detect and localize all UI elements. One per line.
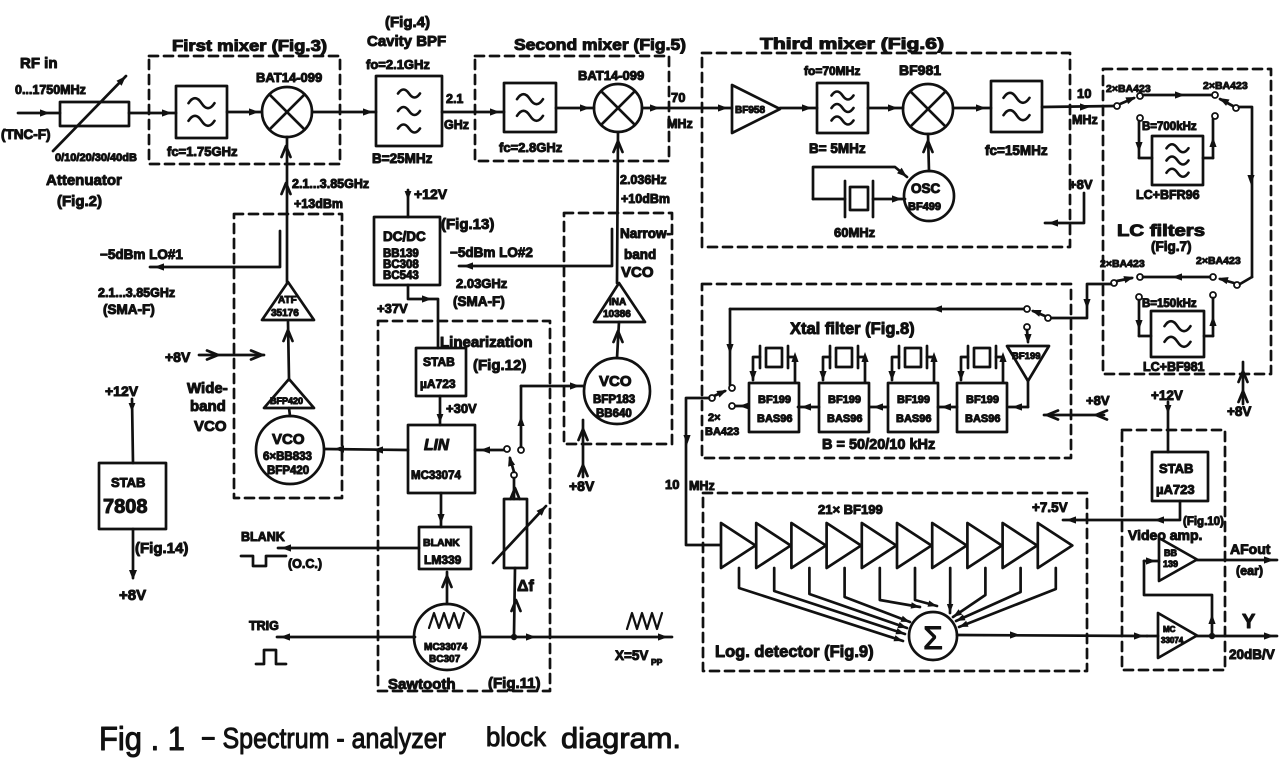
svg-text:Log. detector (Fig.9): Log. detector (Fig.9) [715,643,874,661]
svg-text:VCO: VCO [272,431,305,448]
svg-text:+12V: +12V [1151,388,1183,403]
svg-text:B=150kHz: B=150kHz [1142,298,1197,310]
svg-text:BFP420: BFP420 [270,396,303,406]
svg-text:DC/DC: DC/DC [383,229,426,244]
svg-text:BAT14-099: BAT14-099 [578,68,644,83]
svg-text:ATF: ATF [278,295,297,306]
svg-text:Xtal filter (Fig.8): Xtal filter (Fig.8) [790,320,915,338]
svg-text:STAB: STAB [111,475,145,490]
svg-text:OSC: OSC [911,181,941,196]
svg-text:2×BA423: 2×BA423 [1106,83,1151,95]
svg-text:(ear): (ear) [1236,564,1263,578]
svg-text:0/10/20/30/40dB: 0/10/20/30/40dB [55,152,137,164]
svg-text:BAS96: BAS96 [896,413,931,425]
svg-text:2×BA423: 2×BA423 [1203,80,1248,92]
svg-text:+8V: +8V [1069,177,1093,192]
svg-text:Δf: Δf [517,578,535,595]
svg-text:diagram.: diagram. [561,723,681,755]
svg-text:Y: Y [1242,611,1256,633]
svg-text:LC+BFR96: LC+BFR96 [1136,188,1200,202]
svg-text:+13dBm: +13dBm [294,197,343,211]
svg-text:−5dBm LO#1: −5dBm LO#1 [100,247,183,262]
svg-text:(Fig.14): (Fig.14) [135,540,188,557]
svg-text:2×BA423: 2×BA423 [1100,258,1145,270]
svg-text:+8V: +8V [1086,393,1110,408]
svg-text:35176: 35176 [271,308,299,319]
svg-text:(Fig.12): (Fig.12) [473,357,526,374]
svg-text:139: 139 [1163,559,1178,569]
svg-text:60MHz: 60MHz [834,225,876,240]
svg-text:(Fig.2): (Fig.2) [57,193,102,210]
svg-text:BAS96: BAS96 [965,413,1000,425]
svg-text:(TNC-F): (TNC-F) [1,127,50,142]
svg-text:band: band [624,247,656,262]
svg-text:fo=70MHz: fo=70MHz [804,64,860,78]
svg-text:BAS96: BAS96 [827,413,862,425]
svg-text:BC543: BC543 [383,270,419,282]
svg-text:MHz: MHz [689,479,715,493]
svg-text:BF958: BF958 [735,105,765,116]
svg-text:+30V: +30V [446,401,477,416]
svg-text:Cavity BPF: Cavity BPF [367,33,446,50]
svg-text:2.1...3.85GHz: 2.1...3.85GHz [292,177,369,191]
svg-text:BF981: BF981 [899,62,941,78]
svg-text:BF199: BF199 [828,394,861,406]
svg-text:BAT14-099: BAT14-099 [256,70,322,85]
svg-text:BB: BB [1164,548,1177,558]
svg-text:BFP183: BFP183 [593,394,635,406]
svg-text:MC33074: MC33074 [424,642,468,653]
svg-text:2×: 2× [708,412,721,424]
svg-text:0...1750MHz: 0...1750MHz [15,83,86,97]
svg-text:10: 10 [1077,86,1091,101]
svg-text:+8V: +8V [165,349,191,365]
svg-text:+37V: +37V [377,301,408,316]
svg-text:RF in: RF in [20,55,58,72]
svg-text:2.1...3.85GHz: 2.1...3.85GHz [98,286,175,300]
svg-text:+7.5V: +7.5V [1032,500,1068,515]
svg-text:BB640: BB640 [596,408,632,420]
svg-text:BF499: BF499 [908,201,941,213]
svg-text:µA723: µA723 [420,377,456,391]
svg-text:B = 50/20/10 kHz: B = 50/20/10 kHz [822,437,935,453]
svg-text:2.1: 2.1 [446,92,463,106]
svg-text:70: 70 [671,90,685,105]
svg-text:MHz: MHz [667,117,693,131]
svg-text:VCO: VCO [599,373,632,390]
svg-text:LC filters: LC filters [1117,222,1205,240]
svg-text:PP: PP [651,657,663,667]
svg-text:VCO: VCO [194,418,227,435]
svg-text:block: block [486,722,546,752]
svg-text:X=5V: X=5V [615,648,648,663]
svg-text:Attenuator: Attenuator [46,172,122,189]
svg-text:BLANK: BLANK [241,530,285,544]
svg-text:band: band [190,398,226,415]
svg-text:Wide-: Wide- [187,380,228,397]
svg-text:fc=2.8GHz: fc=2.8GHz [499,140,563,155]
svg-text:(O.C.): (O.C.) [288,557,322,571]
svg-text:2.03GHz: 2.03GHz [456,276,508,291]
svg-text:BF199: BF199 [758,394,791,406]
svg-text:STAB: STAB [1159,461,1193,476]
svg-text:(Fig.13): (Fig.13) [441,216,494,233]
svg-text:BC307: BC307 [429,654,461,665]
svg-text:BFP420: BFP420 [267,465,309,477]
svg-text:B=25MHz: B=25MHz [372,151,433,166]
svg-text:33074: 33074 [1161,636,1184,645]
svg-text:LIN: LIN [424,437,450,454]
svg-text:MC33074: MC33074 [411,470,461,482]
svg-text:+8V: +8V [569,478,595,494]
svg-text:First mixer (Fig.3): First mixer (Fig.3) [172,38,327,55]
svg-text:+12V: +12V [414,186,448,202]
svg-text:+10dBm: +10dBm [621,192,670,206]
svg-text:(Fig.7): (Fig.7) [1151,239,1192,254]
svg-text:Fig . 1: Fig . 1 [99,720,185,757]
svg-text:BA423: BA423 [705,426,739,438]
svg-text:fc=15MHz: fc=15MHz [985,143,1048,158]
svg-text:Third mixer (Fig.6): Third mixer (Fig.6) [760,36,944,53]
svg-text:+12V: +12V [105,383,139,399]
svg-text:+8V: +8V [119,587,146,604]
svg-text:INA: INA [609,297,626,308]
svg-text:7808: 7808 [103,496,148,518]
svg-text:TRIG: TRIG [249,619,279,633]
svg-text:LC+BF981: LC+BF981 [1143,360,1205,374]
svg-text:− Spectrum - analyzer: − Spectrum - analyzer [201,723,446,755]
svg-text:(Fig.4): (Fig.4) [385,14,430,31]
svg-text:MC: MC [1163,625,1176,634]
svg-text:Σ: Σ [923,620,943,656]
svg-text:BLANK: BLANK [423,537,460,549]
svg-text:MHz: MHz [1072,113,1098,127]
svg-text:B=700kHz: B=700kHz [1142,121,1197,133]
svg-text:BF199: BF199 [897,394,930,406]
svg-text:AFout: AFout [1230,541,1271,557]
svg-text:Sawtooth: Sawtooth [388,676,456,693]
svg-text:Second mixer (Fig.5): Second mixer (Fig.5) [514,37,686,54]
svg-text:GHz: GHz [444,118,469,132]
svg-text:20dB/V: 20dB/V [1229,647,1275,662]
svg-text:BF199: BF199 [1012,351,1041,362]
svg-text:(SMA-F): (SMA-F) [453,294,505,309]
svg-text:+8V: +8V [1227,404,1251,419]
svg-text:B= 5MHz: B= 5MHz [809,141,866,156]
svg-text:10: 10 [665,477,679,492]
svg-text:LM339: LM339 [424,553,462,567]
svg-text:VCO: VCO [621,264,654,281]
svg-text:fo=2.1GHz: fo=2.1GHz [366,57,430,72]
svg-text:(SMA-F): (SMA-F) [103,302,155,317]
svg-text:BF199: BF199 [966,394,999,406]
svg-text:21× BF199: 21× BF199 [818,502,883,517]
svg-text:6×BB833: 6×BB833 [263,451,312,463]
svg-text:2.036Hz: 2.036Hz [620,173,667,187]
svg-text:10386: 10386 [603,309,631,320]
svg-text:BAS96: BAS96 [757,413,792,425]
svg-text:fc=1.75GHz: fc=1.75GHz [167,144,238,159]
svg-text:STAB: STAB [423,355,455,369]
svg-text:Narrow-: Narrow- [620,226,671,241]
svg-text:−5dBm LO#2: −5dBm LO#2 [450,245,533,260]
svg-text:(Fig.11): (Fig.11) [488,675,541,692]
svg-text:µA723: µA723 [1156,482,1195,497]
svg-text:2×BA423: 2×BA423 [1196,255,1241,267]
